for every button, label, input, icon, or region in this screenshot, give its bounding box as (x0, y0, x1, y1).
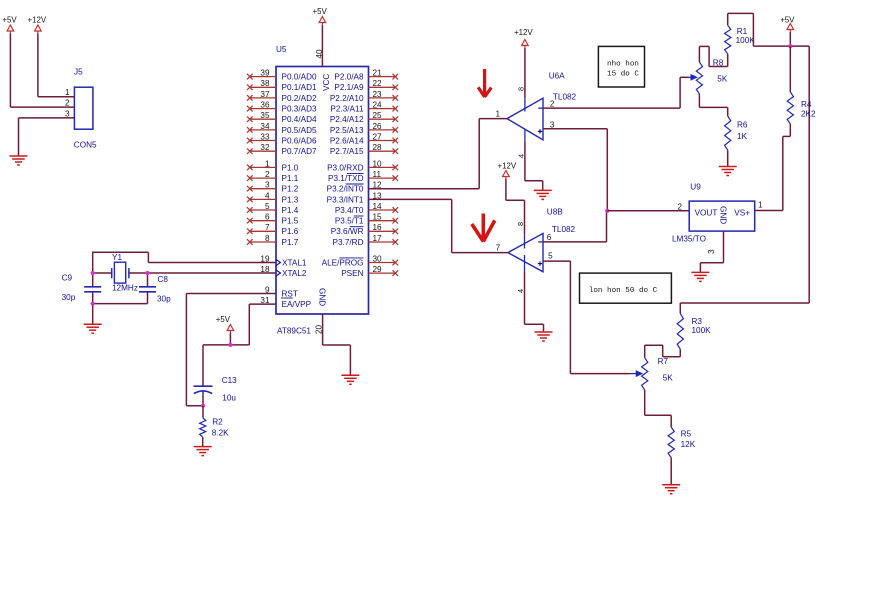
svg-text:15: 15 (373, 213, 383, 222)
svg-text:33: 33 (260, 132, 270, 141)
svg-text:C13: C13 (222, 376, 237, 385)
svg-text:5: 5 (265, 202, 270, 211)
svg-text:26: 26 (373, 122, 383, 131)
svg-text:VS+: VS+ (734, 209, 750, 218)
svg-text:P0.4/AD4: P0.4/AD4 (282, 115, 317, 124)
svg-text:P1.5: P1.5 (282, 217, 299, 226)
svg-text:5K: 5K (663, 373, 674, 382)
svg-text:XTAL1: XTAL1 (282, 258, 307, 267)
svg-text:ALE/PROG: ALE/PROG (322, 258, 364, 267)
svg-text:6: 6 (547, 233, 552, 242)
svg-text:R4: R4 (801, 100, 812, 109)
svg-text:+5V: +5V (216, 315, 231, 324)
svg-text:28: 28 (373, 143, 383, 152)
svg-text:GND: GND (719, 206, 728, 224)
svg-text:100K: 100K (736, 36, 756, 45)
svg-text:P3.5/T1: P3.5/T1 (335, 217, 364, 226)
svg-text:1: 1 (65, 88, 70, 97)
svg-text:5: 5 (548, 252, 553, 261)
svg-text:U9: U9 (690, 183, 701, 192)
svg-text:+5V: +5V (780, 15, 795, 24)
svg-text:P2.5/A13: P2.5/A13 (330, 126, 364, 135)
svg-text:P0.1/AD1: P0.1/AD1 (282, 83, 317, 92)
svg-text:TL082: TL082 (552, 225, 576, 234)
svg-text:P0.7/AD7: P0.7/AD7 (282, 147, 317, 156)
svg-text:U6A: U6A (549, 72, 565, 81)
svg-text:100K: 100K (692, 326, 712, 335)
svg-text:37: 37 (260, 90, 270, 99)
svg-text:CON5: CON5 (74, 140, 97, 149)
svg-text:8.2K: 8.2K (212, 429, 229, 438)
svg-text:3: 3 (707, 249, 716, 254)
svg-text:2: 2 (65, 99, 70, 108)
svg-text:8: 8 (265, 234, 270, 243)
svg-text:15 do C: 15 do C (607, 70, 639, 78)
svg-text:nho hon: nho hon (607, 60, 639, 68)
svg-text:8: 8 (517, 87, 526, 91)
svg-text:VCC: VCC (322, 74, 331, 91)
svg-text:12K: 12K (681, 440, 696, 449)
svg-text:14: 14 (373, 202, 383, 211)
svg-text:23: 23 (373, 90, 383, 99)
svg-text:P3.1/TXD: P3.1/TXD (328, 174, 364, 183)
svg-text:R7: R7 (658, 357, 669, 366)
svg-text:U5: U5 (276, 45, 287, 54)
svg-text:7: 7 (265, 223, 270, 232)
svg-text:29: 29 (373, 265, 383, 274)
svg-text:22: 22 (373, 79, 383, 88)
svg-text:R2: R2 (212, 418, 223, 427)
svg-text:34: 34 (260, 122, 270, 131)
svg-text:P1.1: P1.1 (282, 174, 299, 183)
svg-text:16: 16 (373, 223, 383, 232)
svg-text:36: 36 (260, 101, 270, 110)
svg-text:EA/VPP: EA/VPP (282, 300, 312, 309)
svg-text:11: 11 (373, 170, 382, 179)
svg-text:P3.2/INT0: P3.2/INT0 (327, 185, 364, 194)
svg-text:1K: 1K (737, 132, 748, 141)
svg-text:7: 7 (496, 244, 501, 253)
svg-text:30p: 30p (157, 295, 171, 304)
svg-text:21: 21 (373, 69, 383, 78)
svg-text:31: 31 (260, 296, 270, 305)
svg-text:TL082: TL082 (553, 92, 577, 101)
svg-text:Y1: Y1 (112, 253, 122, 262)
svg-text:27: 27 (373, 132, 383, 141)
svg-text:+12V: +12V (514, 28, 533, 37)
svg-text:P2.1/A9: P2.1/A9 (334, 83, 364, 92)
svg-text:VOUT: VOUT (695, 209, 718, 218)
svg-text:P2.4/A12: P2.4/A12 (330, 115, 364, 124)
svg-text:20: 20 (315, 324, 324, 334)
svg-text:2: 2 (265, 170, 270, 179)
svg-text:40: 40 (315, 49, 324, 59)
svg-text:35: 35 (260, 111, 270, 120)
svg-text:R6: R6 (737, 120, 748, 129)
svg-text:18: 18 (260, 265, 270, 274)
svg-text:R5: R5 (681, 430, 692, 439)
svg-text:J5: J5 (74, 67, 83, 76)
svg-text:1: 1 (496, 110, 501, 119)
svg-text:P3.4/T0: P3.4/T0 (335, 206, 364, 215)
svg-text:+5V: +5V (313, 7, 328, 16)
svg-text:P0.0/AD0: P0.0/AD0 (282, 73, 317, 82)
svg-text:P2.7/A15: P2.7/A15 (330, 147, 364, 156)
svg-text:R1: R1 (737, 27, 748, 36)
svg-text:P0.3/AD3: P0.3/AD3 (282, 105, 317, 114)
svg-text:1: 1 (265, 159, 270, 168)
svg-text:12MHz: 12MHz (112, 284, 138, 293)
svg-text:10: 10 (373, 159, 383, 168)
svg-text:P2.6/A14: P2.6/A14 (330, 136, 364, 145)
svg-text:lon hon 50 do C: lon hon 50 do C (589, 287, 658, 295)
svg-text:3: 3 (65, 109, 70, 118)
svg-text:U8B: U8B (547, 208, 563, 217)
svg-text:PSEN: PSEN (341, 269, 363, 278)
svg-text:25: 25 (373, 111, 383, 120)
svg-text:2: 2 (550, 100, 555, 109)
svg-text:19: 19 (260, 254, 270, 263)
svg-text:P3.3/INT1: P3.3/INT1 (327, 195, 364, 204)
svg-text:P1.6: P1.6 (282, 227, 299, 236)
svg-text:AT89C51: AT89C51 (277, 327, 311, 336)
svg-text:P1.0: P1.0 (282, 163, 299, 172)
svg-text:39: 39 (260, 69, 270, 78)
svg-text:30: 30 (373, 254, 383, 263)
svg-text:8: 8 (516, 222, 525, 226)
svg-text:32: 32 (260, 143, 270, 152)
svg-text:30p: 30p (62, 293, 76, 302)
svg-text:9: 9 (265, 285, 270, 294)
svg-text:P0.2/AD2: P0.2/AD2 (282, 94, 317, 103)
svg-text:P1.3: P1.3 (282, 195, 299, 204)
svg-text:4: 4 (516, 289, 525, 293)
svg-text:+12V: +12V (498, 161, 517, 170)
svg-text:+5V: +5V (2, 15, 17, 24)
svg-text:P2.0/A8: P2.0/A8 (334, 73, 364, 82)
svg-text:P1.7: P1.7 (282, 238, 299, 247)
svg-text:38: 38 (260, 79, 270, 88)
svg-text:P0.5/AD5: P0.5/AD5 (282, 126, 317, 135)
svg-text:P2.2/A10: P2.2/A10 (330, 94, 364, 103)
svg-text:24: 24 (373, 101, 383, 110)
svg-text:GND: GND (318, 288, 327, 306)
svg-text:XTAL2: XTAL2 (282, 269, 307, 278)
svg-text:P3.0/RXD: P3.0/RXD (327, 163, 363, 172)
svg-text:P1.4: P1.4 (282, 206, 299, 215)
svg-text:2K2: 2K2 (801, 110, 816, 119)
svg-text:1: 1 (758, 201, 763, 210)
svg-text:3: 3 (265, 181, 270, 190)
svg-text:4: 4 (265, 191, 270, 200)
svg-text:RST: RST (282, 289, 298, 298)
svg-text:C9: C9 (62, 273, 73, 282)
svg-text:R8: R8 (713, 59, 724, 68)
svg-text:LM35/TO: LM35/TO (672, 234, 706, 243)
svg-text:P3.7/RD: P3.7/RD (333, 238, 364, 247)
svg-text:P1.2: P1.2 (282, 185, 299, 194)
svg-text:17: 17 (373, 234, 383, 243)
svg-text:+12V: +12V (28, 15, 47, 24)
svg-text:10u: 10u (222, 394, 236, 403)
svg-text:6: 6 (265, 213, 270, 222)
svg-text:R3: R3 (692, 317, 703, 326)
svg-text:P2.3/A11: P2.3/A11 (330, 105, 364, 114)
svg-text:P0.6/AD6: P0.6/AD6 (282, 136, 317, 145)
svg-text:C8: C8 (158, 275, 169, 284)
svg-text:P3.6/WR: P3.6/WR (331, 227, 364, 236)
svg-text:2: 2 (677, 203, 682, 212)
svg-text:5K: 5K (717, 74, 728, 83)
